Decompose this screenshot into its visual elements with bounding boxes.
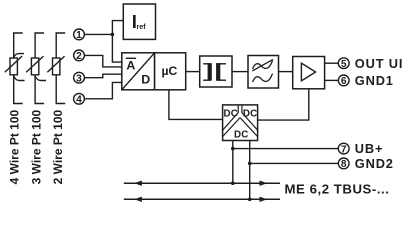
sensor B3 RTD body [53,58,60,75]
sensor B1 bottom lead hook [14,76,25,81]
node UB+ junction dot [231,147,235,151]
reference source U1 Iref box [123,4,155,39]
svg-text:3: 3 [76,73,82,84]
svg-text:OUT UI: OUT UI [355,56,403,71]
node bus B junction dot [248,198,252,202]
terminal 6 [338,75,349,87]
sensor B1 top lead hook [14,54,24,58]
svg-text:3 Wire Pt 100: 3 Wire Pt 100 [29,109,43,184]
terminal 8 [338,158,349,170]
amplifier box [293,57,325,89]
terminal 3 [74,72,85,84]
T-BUS ground rail left arrowhead [134,197,142,202]
wire junction up to Iref [112,21,123,35]
svg-text:4: 4 [76,95,82,106]
node junction dot [111,33,115,37]
sensor B3 diagonal [47,56,64,72]
svg-text:GND2: GND2 [355,156,394,171]
transformer isolation box [200,56,232,87]
sensor B3 bracket [56,33,65,104]
svg-text:GND1: GND1 [355,73,394,88]
T-BUS supply rail wire [124,182,280,184]
microcontroller uC box [155,53,186,90]
wire to terminal 8 [250,162,339,164]
DC/DC converter box [223,105,258,141]
wire terminal 1 to junction [84,33,112,35]
svg-text:µC: µC [161,64,177,78]
svg-text:DC: DC [224,109,239,120]
svg-text:ref: ref [137,24,147,31]
svg-text:DC: DC [234,130,249,141]
svg-text:7: 7 [341,144,347,155]
wire junction down to A/D [112,34,121,62]
T-BUS ground rail right arrowhead [260,197,268,202]
sensor B1 bracket [14,33,23,104]
wire DC/DC to GND2 bus [249,140,251,199]
svg-text:A: A [126,59,135,73]
wire uC to transformer [186,71,200,73]
svg-text:6: 6 [341,76,347,87]
svg-text:1: 1 [76,30,82,41]
svg-text:2: 2 [76,51,82,62]
sensor B1 RTD body [10,58,17,75]
terminal 2 [74,50,85,62]
svg-text:ME 6,2 TBUS-...: ME 6,2 TBUS-... [285,181,390,196]
wire DC/DC to UB+ bus [232,140,234,183]
svg-text:5: 5 [341,59,347,70]
wire terminal 3 to A/D [84,74,122,78]
node bus A junction dot [231,181,235,185]
T-BUS ground rail wire [124,198,280,200]
wire terminal 2 to A/D [84,55,122,67]
svg-text:8: 8 [341,159,347,170]
svg-text:4 Wire Pt 100: 4 Wire Pt 100 [8,109,22,184]
wire terminal 4 to A/D [84,82,122,98]
sensor B2 RTD body [31,58,38,75]
T-BUS supply rail left arrowhead [134,181,142,186]
wire filter to amplifier [279,71,293,73]
sensor B2 bottom lead hook [35,76,46,81]
terminal 5 [338,58,349,70]
low-pass filter box [248,56,279,89]
wire transformer to filter [232,71,248,73]
node GND2 junction dot [248,162,252,166]
wire to terminal 7 [233,148,339,150]
terminal 1 [74,29,85,41]
svg-text:D: D [141,72,150,86]
wire amplifier to terminal 6 [325,79,339,81]
wire uC to DC/DC [169,90,223,120]
terminal 4 [74,93,85,105]
sensor B2 bracket [35,33,44,104]
sensor B2 diagonal [26,56,43,72]
A/D converter box [122,53,155,90]
svg-text:2 Wire Pt 100: 2 Wire Pt 100 [51,109,65,184]
svg-text:UB+: UB+ [355,141,384,156]
wire DC/DC to amplifier supply [258,89,309,120]
wire amplifier to terminal 5 [325,62,339,64]
svg-text:DC: DC [243,109,258,120]
terminal 7 [338,143,349,155]
sensor B1 diagonal [5,56,22,72]
T-BUS supply rail right arrowhead [260,181,268,186]
